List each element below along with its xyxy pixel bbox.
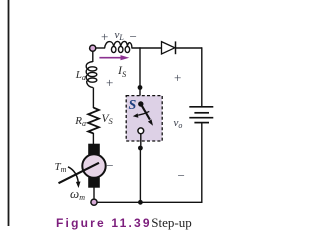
wire: node down to La <box>92 48 94 62</box>
left margin rule <box>8 0 10 226</box>
label + (Vs) <box>106 76 113 89</box>
bottom wire <box>94 201 202 203</box>
switch lower terminal dot <box>138 146 143 151</box>
label - (vo) <box>178 169 185 182</box>
motor body <box>82 154 105 177</box>
label Ra <box>75 116 86 128</box>
motor bottom brush <box>88 177 100 187</box>
label - (vL) <box>130 30 137 43</box>
label vL <box>115 30 124 42</box>
label wm <box>70 187 85 202</box>
wire: right branch down to battery <box>201 47 203 107</box>
wire: La to Ra <box>92 87 94 108</box>
wire: motor to bottom node <box>93 188 95 200</box>
motor shaft line <box>59 163 100 183</box>
resistor Ra (zigzag) <box>88 108 99 134</box>
node (top left, plum) <box>90 45 96 51</box>
junction dot on bottom wire <box>138 200 143 205</box>
wire: switch branch bottom <box>139 148 141 202</box>
switch blade with arrowhead <box>141 104 150 119</box>
inductor L (horizontal coil) <box>105 41 132 52</box>
label vo <box>174 118 183 130</box>
label La <box>76 70 86 82</box>
node (bottom left, plum) <box>91 199 97 205</box>
junction dot above switch box <box>138 85 143 90</box>
inductor La (vertical coil) <box>86 62 97 88</box>
battery Vo <box>189 106 213 108</box>
label Tm <box>55 162 67 174</box>
wire: Ra to motor <box>92 133 94 145</box>
switch S fixed contact dot <box>138 101 143 106</box>
wire: open contact to box bottom <box>140 134 142 146</box>
switch motion arrow (leftward) <box>138 111 149 115</box>
label + (vo) <box>174 71 181 84</box>
label S (switch) <box>129 99 137 113</box>
switch box (dashed) <box>126 96 162 141</box>
wire: inductor to diode <box>132 47 162 49</box>
diode D1 <box>162 42 175 54</box>
label Is <box>118 64 126 79</box>
wire: battery down to bottom right corner <box>201 123 203 203</box>
label Vs <box>102 114 113 126</box>
switch open contact <box>138 128 144 134</box>
wire: switch branch top <box>139 47 141 96</box>
wire: diode to top right corner <box>176 47 202 49</box>
motor top brush <box>88 144 100 155</box>
label + (vL) <box>101 30 108 43</box>
caption <box>56 214 192 232</box>
wire: top left node to inductor <box>93 47 105 49</box>
current arrow Is (purple) <box>99 57 122 59</box>
label - (motor) <box>106 159 113 172</box>
torque arc arrow <box>68 167 78 183</box>
